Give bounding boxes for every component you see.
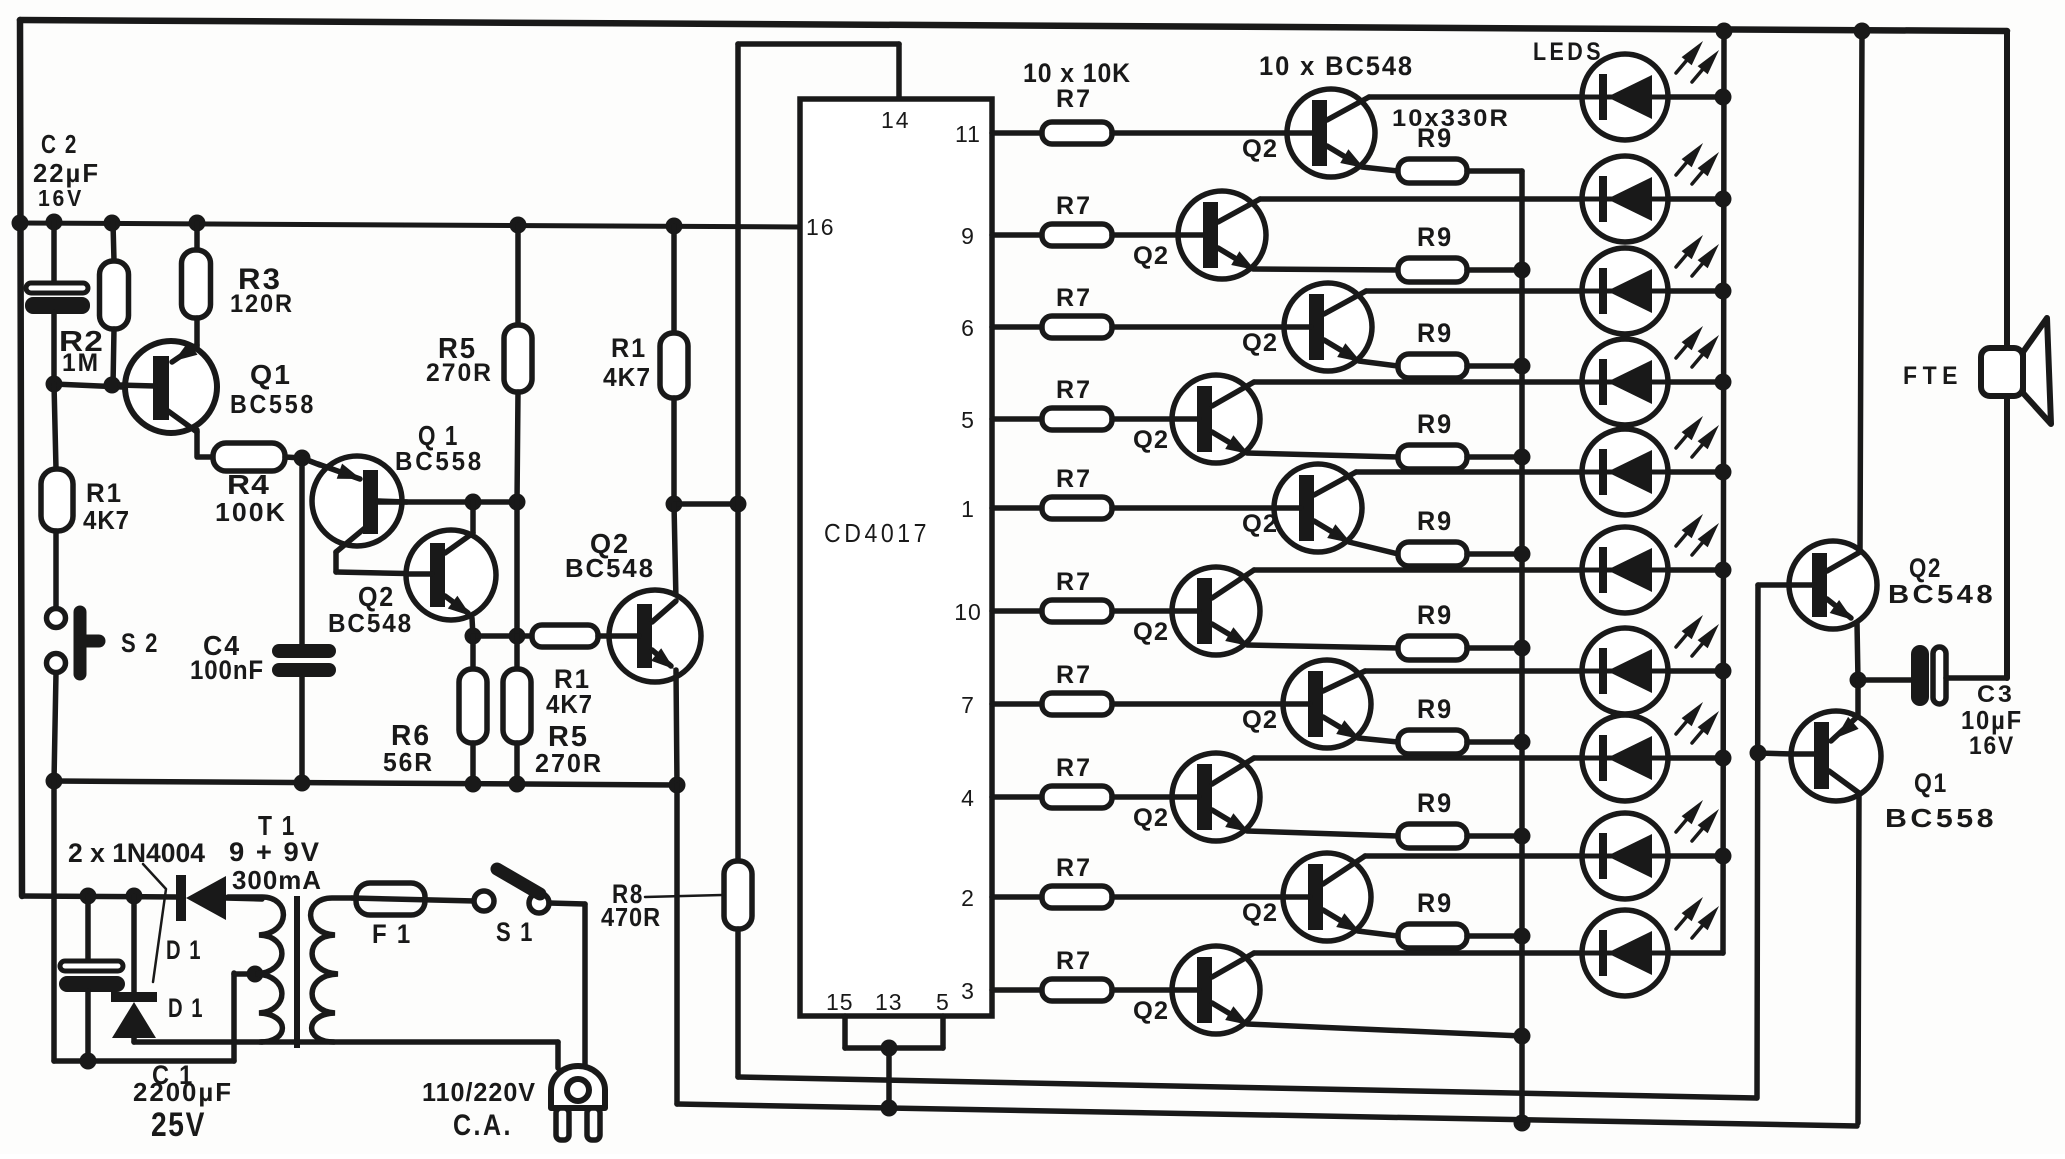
transistor Q2 row 3 (BC548) — [1284, 283, 1372, 371]
resistor R2 1M — [100, 261, 129, 329]
svg-text:5: 5 — [936, 989, 950, 1015]
transformer T1 secondary winding — [228, 897, 283, 1042]
svg-text:Q2: Q2 — [1133, 242, 1169, 270]
junction rail / R9 at y=836 — [1514, 828, 1531, 845]
resistor R4 100K — [213, 443, 285, 471]
resistor R3 120R — [182, 250, 211, 318]
resistor R9 row 1 (330R) — [1398, 159, 1467, 183]
resistor R7 row 7 (10K) — [1042, 693, 1112, 715]
wire junction to Q1b emitter — [302, 458, 320, 465]
junction ground bus / C1 — [80, 1053, 97, 1070]
wire emitter row 5 to R9 — [1349, 542, 1398, 554]
junction bus / R1 4K7 vertical — [666, 218, 683, 235]
wire R9 row 1 to rail — [1467, 168, 1522, 174]
resistor R5 270R (lower) — [503, 669, 531, 743]
wire Q1 audio collector down — [1858, 793, 1859, 1123]
svg-text:4: 4 — [961, 785, 975, 811]
transformer T1 core — [294, 896, 300, 1048]
wire primary to fuse — [352, 898, 475, 901]
wire pin 1 stub — [992, 505, 1042, 511]
wire Q2 audio base link — [1758, 582, 1791, 588]
fuse F1 body — [356, 883, 425, 915]
junction mid bus / R6 — [465, 776, 482, 793]
wire R9 common rail — [1519, 171, 1525, 1123]
wire diode leader line — [143, 864, 166, 982]
svg-text:4K7: 4K7 — [83, 505, 130, 535]
LED 1 light arrows — [1676, 60, 1687, 73]
wire center-tap link — [234, 971, 256, 977]
junction anode bus / LED 2 — [1715, 191, 1732, 208]
svg-text:R7: R7 — [1056, 854, 1092, 882]
junction rail / R9 at y=936 — [1514, 928, 1531, 945]
wire top +V rail (border) — [20, 20, 2007, 31]
svg-text:7: 7 — [961, 692, 975, 718]
svg-text:16: 16 — [806, 214, 836, 240]
diode D1 lower cathode bar — [111, 992, 157, 1002]
junction R4 / C4 / Q1b emitter — [294, 450, 311, 467]
wire pin14 drop to IC — [896, 44, 902, 100]
svg-text:R9: R9 — [1417, 694, 1453, 724]
junction transformer center tap — [247, 966, 264, 983]
svg-text:C3: C3 — [1977, 681, 2015, 708]
wire R7 row 5 to base — [1112, 505, 1274, 511]
wire R7 row 9 to base — [1112, 894, 1283, 900]
resistor R7 row 8 (10K) — [1042, 786, 1112, 808]
junction rectifier wire / C1 — [80, 888, 97, 905]
capacitor C3 plate (outlined) — [1933, 647, 1946, 704]
resistor R9 row 5 (330R) — [1398, 542, 1467, 566]
junction wire636 / R5-R5 link — [509, 628, 526, 645]
LED 8 — [1582, 715, 1668, 801]
svg-text:R1: R1 — [611, 333, 647, 363]
wire base node Q1a (R2 junction wire) — [54, 384, 122, 387]
wire ground drop — [886, 1048, 892, 1108]
wire R1v top lead — [671, 226, 677, 333]
LED 5 — [1582, 429, 1668, 515]
svg-text:R7: R7 — [1056, 568, 1092, 596]
wire pin 5 stub — [992, 416, 1042, 422]
switch S1 right contact — [529, 893, 549, 913]
wire C4 top lead — [299, 458, 305, 644]
junction mid bus / left rail — [46, 773, 63, 790]
plug prong left — [556, 1108, 569, 1140]
junction rail / bottom return — [1514, 1115, 1531, 1132]
wire emitter row 1 to R9 — [1362, 167, 1398, 171]
capacitor C1 plate + (outlined) — [60, 961, 123, 971]
junction mid bus / R5b — [509, 776, 526, 793]
LED 6 light arrows — [1676, 533, 1687, 546]
wire R7 row 4 to base — [1112, 416, 1172, 422]
junction top rail / audio branch — [1854, 23, 1871, 40]
wire R8 line to audio bases — [738, 1077, 1756, 1098]
diode D1 upper cathode bar — [176, 875, 186, 921]
switch S2 lower contact — [47, 654, 66, 673]
junction anode bus / LED 9 — [1715, 848, 1732, 865]
wire Q1a collector to R4 — [197, 430, 213, 457]
svg-text:10 x 10K: 10 x 10K — [1023, 58, 1131, 88]
svg-text:100K: 100K — [215, 497, 287, 527]
junction anode bus / LED 5 — [1715, 464, 1732, 481]
svg-text:F 1: F 1 — [372, 919, 412, 949]
svg-text:R7: R7 — [1056, 284, 1092, 312]
wire link to R5b — [514, 636, 520, 669]
junction bus / R5a — [510, 217, 527, 234]
wire emitter row 2 to R9 — [1253, 269, 1398, 270]
wire R7 row 3 to base — [1112, 324, 1284, 330]
transistor Q2 row 9 (BC548) — [1283, 853, 1371, 941]
svg-text:270R: 270R — [426, 359, 493, 387]
wire R7 row 1 to base — [1112, 130, 1287, 136]
wire emitter row 8 to R9 — [1247, 831, 1398, 836]
resistor R9 row 4 (330R) — [1398, 445, 1467, 469]
svg-text:R9: R9 — [1417, 788, 1453, 818]
resistor R7 row 10 (10K) — [1042, 979, 1112, 1001]
wire primary bottom lead — [262, 1039, 558, 1045]
wire Q2 driver emitter to bottom rail — [674, 785, 680, 1104]
junction anode bus / LED 6 — [1715, 562, 1732, 579]
svg-text:Q2: Q2 — [1242, 135, 1278, 163]
resistor R9 row 7 (330R) — [1398, 730, 1467, 754]
transistor Q2 row 1 (BC548) — [1287, 89, 1375, 177]
svg-text:R9: R9 — [1417, 318, 1453, 348]
svg-text:15: 15 — [826, 989, 854, 1015]
wire Q1 audio emitter up — [1855, 680, 1861, 716]
LED 4 light arrows — [1676, 345, 1687, 358]
wire right border rail (speaker branch) — [2004, 31, 2010, 678]
junction rail / R9 at y=457 — [1514, 449, 1531, 466]
capacitor C2 plate - (solid) — [25, 297, 90, 314]
junction anode bus / LED 4 — [1715, 374, 1732, 391]
junction link / R8 line — [730, 496, 747, 513]
svg-text:470R: 470R — [601, 902, 661, 932]
transistor Q2 row 7 (BC548) — [1283, 660, 1371, 748]
junction rail / row10 emitter — [1514, 1028, 1531, 1045]
transistor Q1 BC558 (audio) — [1791, 711, 1881, 801]
wire pin 3 stub — [992, 987, 1042, 993]
junction rail / R9 at y=742 — [1514, 734, 1531, 751]
junction anode bus / LED 8 — [1715, 750, 1732, 767]
wire left rail to ground bus — [51, 781, 57, 1061]
wire plug left lead — [555, 1042, 561, 1068]
wire D1 upper anode to transformer — [226, 898, 262, 899]
junction mid bus / C4 — [294, 775, 311, 792]
svg-text:16V: 16V — [38, 185, 84, 211]
resistor R9 row 3 (330R) — [1398, 354, 1467, 378]
svg-text:4K7: 4K7 — [546, 689, 593, 719]
wire R5a top lead — [515, 225, 521, 325]
resistor R1 4K7 (left) — [41, 469, 73, 531]
svg-text:1M: 1M — [62, 349, 100, 377]
wire link R1v to R8 line — [674, 501, 738, 507]
wire R8 bottom to corner — [735, 929, 741, 1077]
svg-text:FTE: FTE — [1903, 362, 1963, 390]
svg-text:Q1: Q1 — [1914, 768, 1948, 798]
svg-text:25V: 25V — [151, 1106, 206, 1144]
svg-text:R7: R7 — [1056, 465, 1092, 493]
wire emitter to R6 — [470, 636, 476, 669]
wire R9 row 4 to rail — [1467, 454, 1522, 460]
transistor Q2 BC548 (audio) — [1789, 541, 1877, 629]
wire Q2osc collector up — [470, 502, 476, 533]
wire bottom ground return — [677, 1104, 1857, 1126]
wire S2 to mid bus — [54, 673, 56, 781]
wire R9 row 6 to rail — [1467, 645, 1522, 651]
transistor Q2 BC548 (oscillator) — [406, 530, 496, 620]
svg-text:1: 1 — [961, 496, 975, 522]
wire R9 row 5 to rail — [1467, 551, 1522, 557]
wire mid bus (oscillator ground) — [54, 781, 677, 785]
svg-text:2200µF: 2200µF — [133, 1077, 233, 1107]
switch S1 lever — [497, 869, 540, 894]
LED 4 — [1582, 339, 1668, 425]
LED 2 — [1582, 156, 1668, 242]
plug hole — [567, 1079, 589, 1101]
switch S1 left contact — [474, 891, 494, 911]
resistor R5 270R (upper) — [504, 325, 532, 392]
transformer T1 primary winding — [311, 898, 352, 1042]
svg-text:9 + 9V: 9 + 9V — [229, 837, 321, 867]
wire collector row 10 to LED — [1254, 950, 1723, 956]
capacitor C2 plate + (outlined) — [26, 283, 88, 293]
wire R4 to junction — [285, 457, 302, 458]
resistor R7 row 9 (10K) — [1042, 886, 1112, 908]
svg-text:270R: 270R — [535, 748, 603, 778]
wire R5b bottom lead — [514, 743, 520, 784]
svg-text:4K7: 4K7 — [603, 362, 651, 392]
junction bus / C2 — [46, 214, 63, 231]
LED 3 — [1582, 248, 1668, 334]
junction rail / R9 at y=270 — [1514, 262, 1531, 279]
svg-text:2 x 1N4004: 2 x 1N4004 — [68, 838, 205, 868]
wire R9 row 7 to rail — [1467, 739, 1522, 745]
svg-text:Q2: Q2 — [1133, 804, 1169, 832]
wire R9 row 3 to rail — [1467, 363, 1522, 369]
junction rail / R9 at y=554 — [1514, 546, 1531, 563]
svg-text:Q1: Q1 — [250, 359, 292, 390]
wire pin 9 stub — [992, 232, 1042, 238]
wire emitter row 7 to R9 — [1358, 738, 1398, 742]
wire emitter row 3 to R9 — [1359, 361, 1398, 366]
wire R8 leader line — [645, 895, 722, 897]
wire pin 10 stub — [992, 608, 1042, 614]
wire emitter row 10 to rail — [1247, 1024, 1522, 1036]
svg-text:BC548: BC548 — [1888, 579, 1996, 609]
wire audio node to C3 — [1858, 677, 1912, 683]
svg-text:R7: R7 — [1056, 192, 1092, 220]
svg-text:Q2: Q2 — [1133, 426, 1169, 454]
wire collector row 5 to LED — [1356, 469, 1723, 475]
junction anode bus / LED 3 — [1715, 283, 1732, 300]
transistor Q1 BC558 (second) — [312, 456, 407, 552]
wire R5a bottom to crosscouple — [517, 392, 518, 502]
svg-text:10x330R: 10x330R — [1392, 105, 1510, 132]
junction rectifier wire / D1 lower branch — [126, 888, 143, 905]
wire R1 left vertical top lead — [54, 384, 56, 469]
wire x517 link down — [514, 502, 520, 636]
junction audio output node — [1850, 672, 1867, 689]
transistor Q2 row 5 (BC548) — [1274, 464, 1362, 552]
wire R7 row 2 to base — [1112, 232, 1178, 238]
wire R1 to S2 — [53, 531, 59, 608]
switch S2 upper contact — [47, 609, 66, 628]
resistor R9 row 2 (330R) — [1398, 258, 1467, 282]
transistor Q2 row 6 (BC548) — [1172, 567, 1260, 655]
LED 9 — [1582, 813, 1668, 899]
wire R9 row 2 to rail — [1467, 267, 1522, 273]
resistor R8 470R — [724, 861, 752, 929]
resistor R7 row 3 (10K) — [1042, 316, 1112, 338]
svg-text:56R: 56R — [383, 747, 434, 777]
wire Q2 audio emitter down — [1857, 623, 1858, 680]
svg-text:Q2: Q2 — [1133, 997, 1169, 1025]
junction anode bus / LED 7 — [1715, 663, 1732, 680]
speaker FTE body — [1981, 348, 2023, 396]
svg-text:Q2: Q2 — [1242, 706, 1278, 734]
wire top rail to Q2 audio collector — [1860, 31, 1862, 552]
svg-text:13: 13 — [875, 989, 903, 1015]
wire R2 top lead — [113, 223, 114, 261]
wire Q2 driver emitter down — [676, 670, 677, 785]
wire audio bases riser — [1757, 585, 1758, 1098]
svg-text:R7: R7 — [1056, 947, 1092, 975]
junction R1v / link — [666, 496, 683, 513]
junction rail / R9 at y=648 — [1514, 640, 1531, 657]
LED 5 light arrows — [1676, 435, 1687, 448]
wire Q1b collector down — [333, 552, 339, 572]
svg-text:22µF: 22µF — [33, 158, 100, 188]
wire emitter row 6 to R9 — [1247, 645, 1398, 648]
svg-text:R7: R7 — [1056, 754, 1092, 782]
wire R7 row 6 to base — [1112, 608, 1172, 614]
wire rectifier output (left border corner) — [22, 896, 178, 897]
transistor Q1 BC558 (first) — [120, 341, 217, 433]
junction bases riser / Q1 base — [1750, 745, 1767, 762]
wire R7 row 8 to base — [1112, 794, 1172, 800]
transistor Q2 row 8 (BC548) — [1172, 753, 1260, 841]
svg-text:300mA: 300mA — [232, 865, 322, 895]
wire pin14 riser — [735, 44, 741, 861]
svg-text:R4: R4 — [227, 469, 270, 500]
wire pin14 top horizontal — [738, 41, 899, 47]
wire ground bus bottom-left — [54, 1058, 234, 1064]
resistor R7 row 2 (10K) — [1042, 224, 1112, 246]
svg-text:BC558: BC558 — [1885, 803, 1997, 833]
resistor R1 4K7 (horizontal) — [532, 625, 598, 647]
svg-text:C.A.: C.A. — [453, 1109, 513, 1142]
wire R9 row 9 to rail — [1467, 933, 1522, 939]
junction crosscouple / R5a — [509, 494, 526, 511]
svg-text:R7: R7 — [1056, 376, 1092, 404]
svg-text:C 2: C 2 — [41, 129, 78, 159]
wire C1 bottom lead — [85, 991, 91, 1061]
wire emitter node to R1h — [473, 633, 532, 639]
wire R6 bottom lead — [470, 743, 476, 784]
wire collector row 7 to LED — [1365, 668, 1723, 674]
wire emitter row 4 to R9 — [1247, 453, 1398, 457]
LED 7 — [1582, 628, 1668, 714]
transistor Q2 row 2 (BC548) — [1178, 191, 1266, 279]
junction wire384 / R2 — [104, 377, 121, 394]
svg-text:R7: R7 — [1056, 661, 1092, 689]
switch S2 lever bar — [74, 612, 87, 674]
wire supply bus to pin 16 — [20, 223, 800, 227]
LED 1 — [1582, 54, 1668, 140]
svg-text:D 1: D 1 — [166, 935, 202, 965]
LED 10 light arrows — [1676, 916, 1687, 929]
svg-text:Q2: Q2 — [1133, 618, 1169, 646]
transistor Q2 row 4 (BC548) — [1172, 375, 1260, 463]
resistor R7 row 1 (10K) — [1042, 122, 1112, 144]
svg-text:R9: R9 — [1417, 409, 1453, 439]
svg-text:Q2: Q2 — [1242, 329, 1278, 357]
diode D1 lower triangle — [112, 1002, 156, 1038]
svg-text:S 2: S 2 — [121, 628, 159, 658]
resistor R6 56R — [459, 669, 487, 743]
wire C2 top lead — [51, 222, 57, 282]
junction bus / R3 — [189, 215, 206, 232]
wire Q1b base cross-coupling — [378, 499, 518, 505]
wire R3 top lead — [194, 223, 200, 251]
wire R3 bottom lead (to Q1 emitter) — [194, 318, 200, 347]
wire R7 row 10 to base — [1112, 987, 1172, 993]
svg-text:BC558: BC558 — [395, 446, 484, 476]
plug body — [551, 1066, 605, 1108]
resistor R9 row 8 (330R) — [1398, 824, 1467, 848]
svg-text:LEDS: LEDS — [1533, 38, 1604, 66]
svg-text:D 1: D 1 — [168, 993, 204, 1023]
svg-text:2: 2 — [961, 885, 975, 911]
svg-text:120R: 120R — [230, 290, 294, 318]
wire collector row 4 to LED — [1254, 379, 1723, 385]
wire Q2osc emitter down — [472, 618, 473, 637]
transistor Q2 row 10 (BC548) — [1172, 946, 1260, 1034]
switch S2 lever handle — [82, 635, 99, 648]
svg-text:14: 14 — [881, 107, 911, 133]
svg-text:R9: R9 — [1417, 506, 1453, 536]
wire LED anode bus — [1723, 31, 1724, 953]
junction rail / R9 at y=366 — [1514, 358, 1531, 375]
resistor R7 row 5 (10K) — [1042, 497, 1112, 519]
wire R2 bottom lead — [113, 329, 114, 386]
speaker FTE cone — [2023, 318, 2051, 424]
svg-text:R7: R7 — [1056, 85, 1092, 113]
wire plug right lead — [582, 904, 588, 1066]
LED 10 — [1582, 910, 1668, 996]
LED 6 — [1582, 527, 1668, 613]
wire pin 7 stub — [992, 701, 1042, 707]
wire IC pin5 drop — [940, 1016, 946, 1048]
svg-text:Q2: Q2 — [1242, 899, 1278, 927]
wire collector row 9 to LED — [1365, 853, 1723, 859]
wire Q1b collector to Q2 base — [336, 572, 430, 574]
resistor R9 row 9 (330R) — [1398, 924, 1467, 948]
svg-text:5: 5 — [961, 407, 975, 433]
wire pin 6 stub — [992, 324, 1042, 330]
wire R9 row 8 to rail — [1467, 833, 1522, 839]
wire R1v bottom lead — [671, 398, 677, 504]
wire R7 row 7 to base — [1112, 701, 1283, 707]
resistor R7 row 4 (10K) — [1042, 408, 1112, 430]
svg-text:BC548: BC548 — [328, 608, 413, 638]
wire pin 2 stub — [992, 894, 1042, 900]
svg-text:R9: R9 — [1417, 600, 1453, 630]
svg-text:S 1: S 1 — [496, 917, 534, 947]
wire collector row 3 to LED — [1366, 288, 1723, 294]
wire collector row 6 to LED — [1254, 567, 1723, 573]
svg-text:11: 11 — [955, 121, 981, 147]
svg-text:9: 9 — [961, 223, 975, 249]
LED 3 light arrows — [1676, 254, 1687, 267]
